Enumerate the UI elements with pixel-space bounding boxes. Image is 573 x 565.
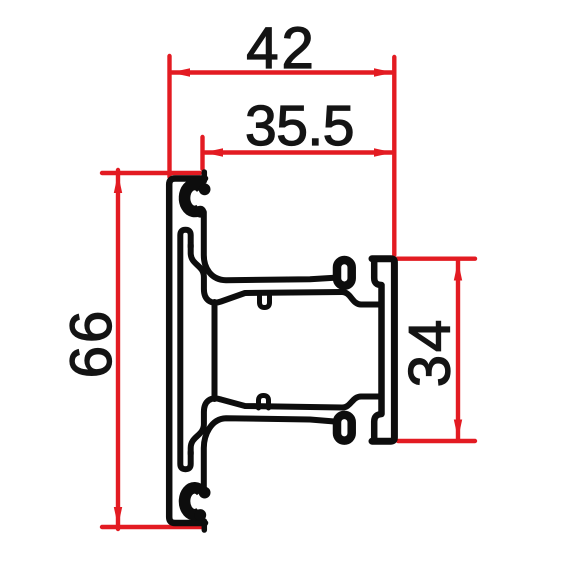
svg-text:42: 42 <box>246 16 317 81</box>
svg-text:66: 66 <box>59 308 124 379</box>
svg-text:35.5: 35.5 <box>245 94 354 158</box>
svg-text:34: 34 <box>398 317 463 388</box>
